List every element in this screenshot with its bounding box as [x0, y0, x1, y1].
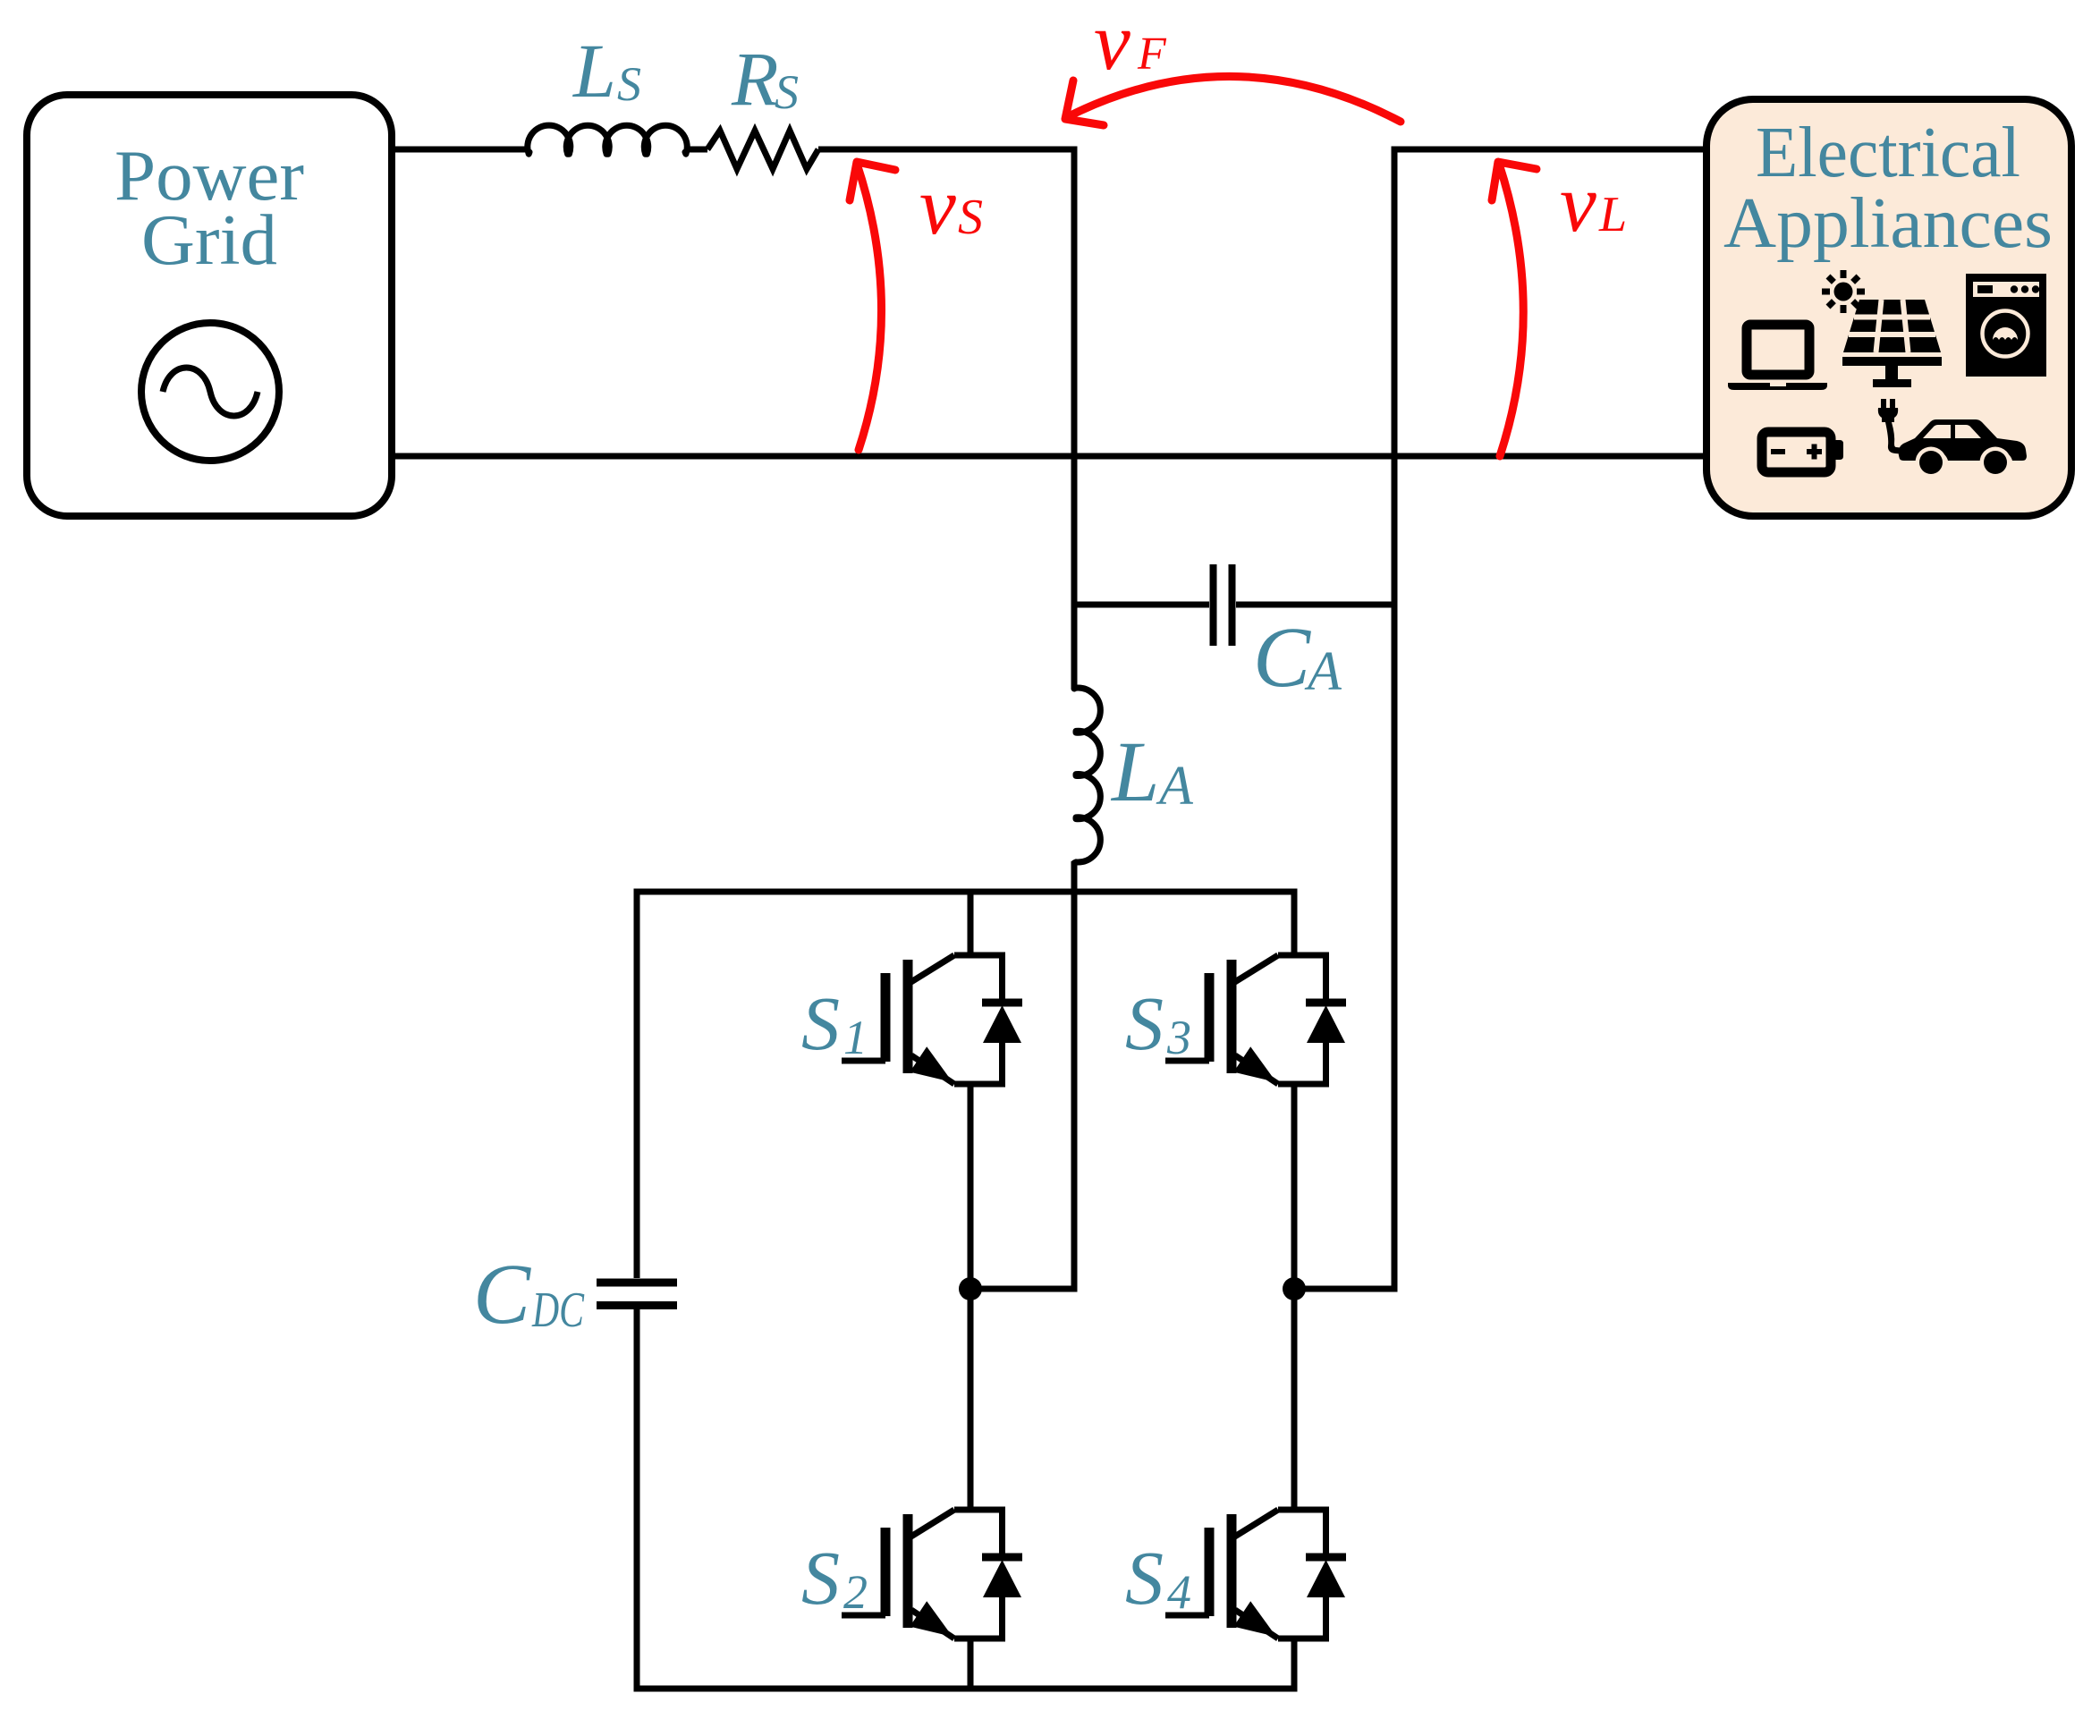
- svg-text:S: S: [775, 65, 799, 119]
- svg-text:v: v: [1560, 157, 1596, 249]
- label S1: [801, 980, 868, 1066]
- svg-text:L: L: [1598, 187, 1627, 242]
- label Power Grid: [114, 137, 304, 280]
- DC-link left rail upper: [634, 892, 640, 1278]
- svg-text:A: A: [1156, 756, 1194, 817]
- transistor S4 (IGBT): [1165, 1510, 1329, 1639]
- label LA: [1110, 724, 1194, 819]
- wire: top right segment to appliances: [1398, 147, 1704, 153]
- svg-text:Electrical: Electrical: [1756, 114, 2020, 192]
- inductor LS: [528, 125, 687, 154]
- svg-text:S: S: [1125, 980, 1164, 1066]
- svg-text:S: S: [617, 57, 641, 111]
- wire: right vertical leg: [1392, 147, 1398, 1290]
- resistor RS: [707, 131, 818, 169]
- svg-text:S: S: [958, 190, 983, 245]
- wire: grid box to inductor (top): [392, 147, 529, 153]
- diode of S4 (freewheeling): [1306, 1510, 1346, 1639]
- wire: LS to RS: [685, 147, 707, 153]
- svg-text:Appliances: Appliances: [1723, 184, 2053, 263]
- power grid box: [27, 95, 392, 516]
- icon washing machine: [1966, 274, 2046, 377]
- capacitor CA branch wire left: [1074, 602, 1209, 608]
- label Electrical Appliances: [1723, 114, 2053, 263]
- wire: S3 collector from top rail: [1291, 892, 1298, 955]
- node B (S3-S4 midpoint): [1283, 1277, 1306, 1300]
- arrow vS (voltage across source side): [850, 162, 895, 450]
- H-bridge top rail: [634, 889, 1298, 895]
- svg-text:R: R: [731, 36, 779, 122]
- capacitor CDC: [597, 1283, 677, 1306]
- svg-text:S: S: [801, 1535, 840, 1621]
- wire: RS to node A corner, down the left filter leg: [818, 149, 1074, 689]
- inductor LA: [1074, 688, 1100, 863]
- svg-text:L: L: [1110, 724, 1159, 819]
- svg-text:DC: DC: [531, 1283, 584, 1338]
- svg-text:S: S: [1125, 1535, 1164, 1621]
- svg-text:C: C: [1253, 609, 1311, 705]
- transistor S1 (IGBT): [842, 955, 1005, 1084]
- node A (S1-S2 midpoint): [959, 1277, 982, 1300]
- transistor S3 (IGBT): [1165, 955, 1329, 1084]
- capacitor CA branch wire right: [1236, 602, 1394, 608]
- label CA: [1253, 609, 1342, 705]
- diode of S2 (freewheeling): [982, 1510, 1022, 1639]
- diode of S1 (freewheeling): [982, 955, 1022, 1084]
- label vF: [1094, 0, 1167, 87]
- icon battery: [1762, 432, 1843, 472]
- wire: S3 emitter to midpoint: [1291, 1084, 1298, 1289]
- svg-text:C: C: [473, 1246, 531, 1342]
- svg-text:F: F: [1137, 29, 1167, 80]
- wire: bottom return conductor: [392, 453, 1703, 460]
- svg-text:A: A: [1304, 641, 1342, 702]
- icon sun: [1822, 270, 1865, 313]
- label RS: [731, 36, 799, 122]
- wire: S1 emitter to midpoint: [968, 1084, 974, 1289]
- DC-link left rail lower: [634, 1309, 640, 1689]
- wire: S4 emitter to bottom rail: [1291, 1639, 1298, 1689]
- label vS: [919, 160, 983, 251]
- icon laptop: [1728, 325, 1827, 390]
- icon EV car with charging plug: [1878, 399, 2027, 478]
- svg-text:v: v: [919, 160, 956, 251]
- wire: midpoint to S4 collector: [1291, 1289, 1298, 1510]
- svg-text:S: S: [801, 980, 840, 1066]
- label CDC: [473, 1246, 584, 1342]
- electrical appliances box: [1706, 99, 2071, 516]
- label S3: [1125, 980, 1191, 1066]
- wire: right midpoint jog: [1294, 1286, 1398, 1292]
- transistor S2 (IGBT): [842, 1510, 1005, 1639]
- svg-text:1: 1: [843, 1011, 868, 1064]
- svg-text:L: L: [572, 28, 616, 114]
- wire: LA down to midpoint jog: [970, 861, 1074, 1289]
- svg-text:3: 3: [1166, 1011, 1191, 1064]
- H-bridge bottom rail: [634, 1686, 1298, 1692]
- arrow vL (voltage across load side): [1492, 162, 1537, 456]
- label vL: [1560, 157, 1627, 249]
- label S4: [1125, 1535, 1191, 1621]
- arrow vF (voltage across filter gap): [1065, 76, 1401, 125]
- svg-text:2: 2: [843, 1565, 868, 1619]
- svg-text:4: 4: [1167, 1565, 1191, 1619]
- svg-text:v: v: [1094, 0, 1130, 87]
- wire: S2 emitter to bottom rail: [968, 1639, 974, 1689]
- wire: S1 collector from top rail: [968, 892, 974, 955]
- wire: midpoint to S2 collector: [968, 1289, 974, 1510]
- AC source V1: [141, 323, 279, 461]
- diode of S3 (freewheeling): [1306, 955, 1346, 1084]
- svg-text:Grid: Grid: [141, 201, 277, 280]
- label LS: [572, 28, 641, 114]
- label S2: [801, 1535, 868, 1621]
- icon solar panel: [1842, 300, 1942, 387]
- capacitor CA: [1214, 564, 1232, 646]
